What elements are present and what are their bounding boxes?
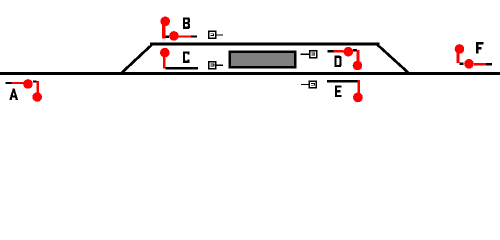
signal D head ball 1 xyxy=(344,47,354,57)
signal B head ball 2 xyxy=(169,31,179,41)
signal A head ball 1 xyxy=(23,79,33,89)
signal B head ball 1 xyxy=(160,17,170,27)
label E xyxy=(335,85,342,97)
signal A red arm xyxy=(12,82,24,84)
signal D black stub xyxy=(327,50,333,52)
signal F head ball 1 xyxy=(455,44,465,54)
signal F red stem xyxy=(457,53,460,63)
signal B red stem xyxy=(162,25,165,38)
main track line xyxy=(0,72,500,75)
signal F head ball 2 xyxy=(464,59,474,69)
signal B black stub xyxy=(191,35,197,37)
signal F black stub xyxy=(486,63,492,65)
phone symbol S3 square xyxy=(310,51,317,58)
signal E red stem xyxy=(358,80,361,93)
signal B black foot xyxy=(165,36,169,39)
signal F red arm xyxy=(474,63,486,65)
signal A corner stub xyxy=(33,80,37,82)
signal A head ball 2 xyxy=(32,92,42,102)
label F xyxy=(476,42,483,53)
signal E long black arm xyxy=(327,80,358,83)
signal B red arm xyxy=(179,35,191,37)
signal D red arm xyxy=(334,50,344,52)
phone symbol S1 dash xyxy=(217,34,224,35)
signal D red drop stem xyxy=(357,50,360,61)
signal A black stub xyxy=(6,82,12,84)
loop track line xyxy=(150,43,380,46)
signal C long black foot xyxy=(166,67,198,69)
phone symbol S4 dash xyxy=(301,84,309,85)
left turnout diagonal wire xyxy=(117,46,152,75)
label A xyxy=(9,89,18,100)
signal C red stem xyxy=(163,57,166,69)
phone symbol S3 dash xyxy=(301,54,309,55)
signal C head ball xyxy=(160,48,170,58)
label C xyxy=(183,51,190,63)
phone symbol S2 dash xyxy=(217,65,224,66)
phone symbol S4 square xyxy=(309,81,316,88)
signal A red drop stem xyxy=(36,81,39,92)
phone symbol S2 square xyxy=(209,62,216,69)
label B xyxy=(183,17,190,29)
label D xyxy=(334,56,341,67)
signal E head ball xyxy=(353,93,363,103)
signal D corner stub xyxy=(353,49,357,51)
right turnout diagonal wire xyxy=(377,46,413,75)
platform xyxy=(230,52,296,68)
signal D head ball 2 xyxy=(353,61,363,71)
signal F black foot xyxy=(459,62,463,65)
phone symbol S1 square xyxy=(209,31,216,38)
